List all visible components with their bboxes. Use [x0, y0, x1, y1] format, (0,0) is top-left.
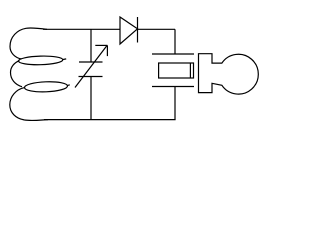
wire earphone bottom lead [174, 87, 176, 120]
inductor L1 coil top arc (turn 1) [10, 28, 47, 59]
crystal earphone top plate [152, 53, 194, 55]
inductor L1 turn 1 tip tail [62, 58, 66, 61]
variable capacitor C1 arrowhead vertical bar [106, 45, 108, 56]
variable capacitor C1 bottom plate [79, 76, 103, 78]
diode D1 triangle [120, 17, 138, 44]
crystal earphone bottom plate [152, 86, 194, 88]
wire top horizontal (coil to diode anode) [43, 28, 120, 30]
wire right vertical down to earphone [174, 29, 176, 54]
crystal earphone body rectangle [159, 63, 194, 78]
inductor L1 turn 1 back-loop ellipse [18, 55, 63, 65]
wire diode cathode to right corner [138, 28, 176, 30]
variable capacitor C1 arrow diagonal [75, 46, 107, 88]
inductor L1 left arc (turn 2) [11, 61, 23, 87]
inductor L1 turn 2 tip tail [67, 84, 70, 87]
wire bottom horizontal return [44, 119, 176, 121]
variable capacitor C1 top plate [79, 61, 103, 63]
node junction to variable capacitor [90, 29, 92, 62]
crystal earphone body rectangle inner edge line [189, 63, 191, 78]
variable capacitor C1 arrowhead horizontal bar [95, 44, 107, 46]
wire variable capacitor bottom lead [90, 77, 92, 120]
earphone plug body with circle [199, 54, 259, 94]
diode D1 cathode bar [137, 17, 139, 43]
inductor L1 bottom arc (turn 3) [10, 88, 48, 121]
inductor L1 turn 2 back-loop ellipse [24, 81, 67, 93]
